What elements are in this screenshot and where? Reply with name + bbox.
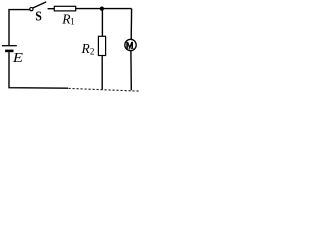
resistor R2: [98, 36, 105, 55]
wire: motor down to bottom: [130, 51, 132, 91]
svg-text:S: S: [35, 9, 42, 24]
switch S contact circle: [30, 7, 33, 10]
motor M: [125, 39, 136, 50]
battery E: short thick negative plate: [5, 50, 13, 53]
switch S blade (open): [33, 2, 46, 8]
battery E: long thin positive plate: [2, 45, 17, 47]
svg-text:1: 1: [70, 17, 75, 27]
junction dot: [100, 7, 104, 11]
svg-text:2: 2: [90, 46, 95, 56]
wire: battery negative down to bottom-left corner, solid bottom wire: [9, 52, 68, 88]
svg-text:E: E: [12, 50, 24, 66]
wire: top-right corner down to motor: [130, 9, 132, 39]
wire: R2 down to bottom: [101, 56, 103, 90]
wire: bottom right (faded dotted in scan): [69, 88, 140, 91]
wire: junction down to R2: [101, 9, 103, 37]
wire: R1 to top-right corner: [76, 8, 132, 10]
label M: [126, 42, 134, 49]
resistor R1: [54, 6, 75, 11]
wire: switch to R1: [48, 8, 54, 10]
wire: top-left corner, battery positive up to switch: [9, 10, 30, 46]
